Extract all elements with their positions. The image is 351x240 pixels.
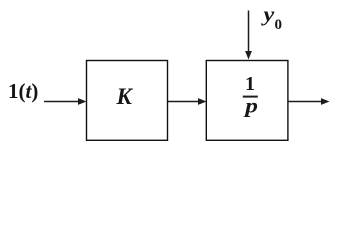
label 1/p fraction: bar (243, 96, 258, 98)
svg-text:1: 1 (245, 73, 255, 95)
block K (87, 61, 168, 141)
block 1/p (206, 61, 288, 141)
wire input arrow into K (44, 98, 87, 105)
svg-text:0: 0 (275, 17, 283, 33)
svg-text:1(t): 1(t) (8, 79, 38, 103)
svg-text:y: y (260, 2, 275, 25)
wire y0 vertical arrow into top of 1/p (245, 11, 252, 60)
wire output arrow from 1/p (288, 98, 330, 105)
wire K to 1/p arrow (167, 98, 207, 105)
svg-text:p: p (243, 94, 258, 118)
svg-text:K: K (116, 84, 134, 109)
